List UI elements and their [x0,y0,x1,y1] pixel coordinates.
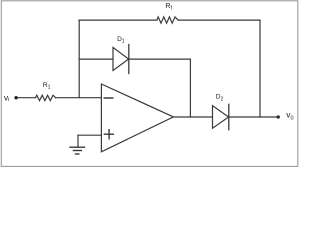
wire top feedback left segment [79,19,157,21]
wire input right to inverting input [56,97,102,99]
wire input left [16,97,35,99]
wire top feedback right segment [178,19,260,21]
diode D1 [113,45,129,74]
resistor R1 [36,95,56,101]
op-amp U1 [101,84,173,152]
wire D1 branch vertical down [189,59,191,117]
node vi input terminal [14,96,17,99]
wire D1 branch left [79,58,113,60]
resistor Rf [157,17,178,23]
svg-text:Rf: Rf [165,3,172,11]
wire D1 branch right [129,58,191,60]
wire op-amp output [173,116,212,118]
wire feedback left vertical [78,20,80,98]
wire non-inverting input [78,134,101,136]
wire feedback right vertical [259,20,261,117]
diode D2 [213,104,229,130]
wire output right [229,116,278,118]
node vo output terminal [277,115,280,118]
ground [70,135,85,154]
